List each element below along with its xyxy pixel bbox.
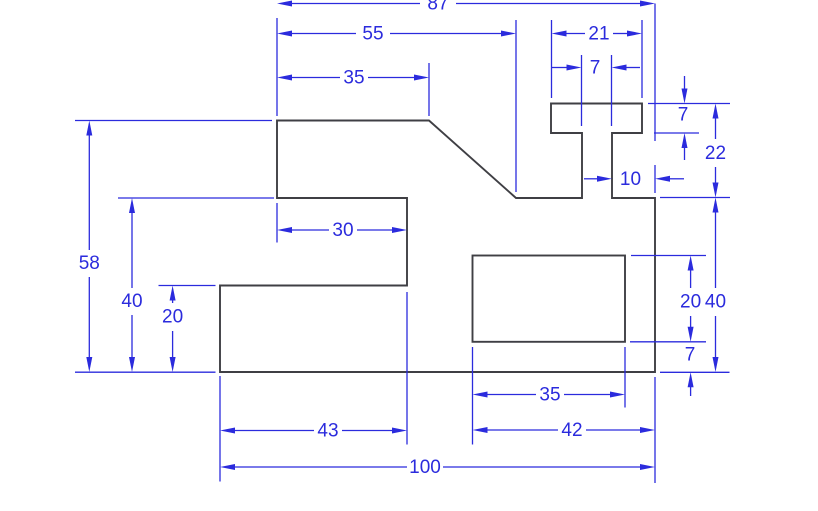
dimension 20 left <box>162 286 183 373</box>
dimension 7 right-bottom <box>685 345 696 397</box>
extension line y=285.5 left <box>159 285 216 287</box>
svg-text:55: 55 <box>362 24 383 45</box>
dimension 87 <box>277 0 655 15</box>
dimension 40 left <box>121 198 142 372</box>
dimension 58 <box>79 121 100 373</box>
part outline <box>220 104 655 373</box>
dimension 35 bottom <box>473 385 626 406</box>
extension line x=277 mid <box>276 203 278 243</box>
svg-text:35: 35 <box>539 385 560 406</box>
svg-text:40: 40 <box>121 291 142 312</box>
dimension 7 top <box>552 58 641 79</box>
extension line x=516 <box>515 20 517 192</box>
svg-text:22: 22 <box>705 143 726 164</box>
extension line y=372.2 left <box>75 371 216 373</box>
dimension 55 <box>277 24 516 45</box>
svg-text:7: 7 <box>678 105 689 126</box>
extension line x=429 <box>428 63 430 116</box>
svg-text:7: 7 <box>590 58 601 79</box>
dimension 35 top <box>277 68 429 89</box>
extension line x=407 bottom <box>406 292 408 445</box>
svg-text:100: 100 <box>409 457 441 478</box>
extension line x=472.5 bottom <box>472 347 474 445</box>
extension line x=611.5 <box>611 55 613 126</box>
extension line x=581.5 <box>581 55 583 126</box>
svg-text:87: 87 <box>427 0 448 15</box>
svg-text:42: 42 <box>561 420 582 441</box>
svg-text:30: 30 <box>332 220 353 241</box>
extension line x=220 bottom <box>219 376 221 482</box>
svg-text:58: 58 <box>79 253 100 274</box>
dimension 7 right-top <box>678 76 689 160</box>
extension line x=277 top <box>276 18 278 116</box>
dimension 22 <box>705 104 726 198</box>
extension line y=372.3 right <box>660 371 730 373</box>
extension line y=255.5 right <box>631 255 706 257</box>
extension line y=198 left <box>118 197 274 199</box>
extension line x=655 bottom <box>654 377 656 483</box>
dimension 10 <box>584 169 684 190</box>
dimension 20 right <box>680 256 701 342</box>
rectangular cutout <box>473 256 626 342</box>
extension line y=341.8 right <box>630 341 706 343</box>
extension line x=625 bottom <box>624 347 626 408</box>
svg-text:43: 43 <box>317 421 338 442</box>
svg-text:20: 20 <box>162 307 183 328</box>
extension line y=133 right <box>654 132 699 134</box>
dimension 100 <box>220 457 655 478</box>
dimension 42 <box>473 420 656 441</box>
svg-text:21: 21 <box>588 24 609 45</box>
extension line x=642 <box>641 20 643 98</box>
dimension 40 right <box>705 198 726 373</box>
svg-text:35: 35 <box>343 68 364 89</box>
svg-text:7: 7 <box>685 345 696 366</box>
svg-text:10: 10 <box>620 169 641 190</box>
svg-text:20: 20 <box>680 292 701 313</box>
svg-text:40: 40 <box>705 292 726 313</box>
dimension 21 <box>552 24 643 45</box>
extension line x=551.5 <box>551 20 553 98</box>
extension line x=655 top <box>654 4 656 194</box>
extension line y=120.5 left <box>75 120 272 122</box>
extension line y=197.5 right <box>660 197 730 199</box>
dimension 30 <box>277 220 407 241</box>
extension line y=103.5 right <box>648 103 730 105</box>
dimension 43 <box>220 421 407 442</box>
